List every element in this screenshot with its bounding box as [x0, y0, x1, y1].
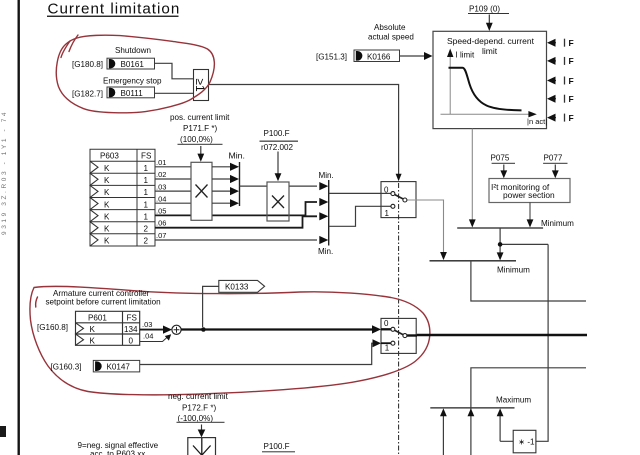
svg-text:F: F	[569, 76, 574, 86]
svg-text:≥1: ≥1	[193, 78, 207, 92]
wire K0147 to switch S2 input 1	[140, 343, 375, 364]
svg-text:[G160.8]: [G160.8]	[37, 323, 68, 332]
svg-text:P075: P075	[491, 153, 510, 162]
svg-text:Min.: Min.	[318, 247, 333, 256]
wire M1 outputs to Min bar 1	[212, 167, 231, 203]
switch S2	[381, 318, 417, 353]
svg-text:Minimum: Minimum	[497, 266, 530, 275]
svg-text:Min.: Min.	[229, 151, 245, 161]
svg-text:[G151.3]: [G151.3]	[316, 53, 347, 62]
page border bar	[18, 0, 20, 455]
wire P172 to limiter	[201, 425, 203, 431]
wire .01	[155, 166, 191, 168]
wire K0133 to main line	[203, 286, 219, 327]
node Min bar 2	[328, 180, 330, 246]
node output labels .01-.07	[156, 158, 166, 240]
svg-text:9319 3Z.R03 - 1Y1 - 74: 9319 3Z.R03 - 1Y1 - 74	[1, 110, 8, 235]
svg-text:acc. to P603 xx: acc. to P603 xx	[90, 450, 145, 455]
svg-text:.03: .03	[142, 320, 152, 329]
svg-text:.07: .07	[156, 231, 166, 240]
svg-text:B0111: B0111	[121, 89, 144, 98]
wire .03 to adder	[140, 329, 164, 331]
wire Min1 to multiplier M2	[240, 185, 318, 187]
svg-text:1: 1	[144, 200, 149, 209]
svg-text:P077: P077	[544, 153, 563, 162]
wire B0161 to OR gate	[155, 63, 194, 79]
svg-text:K: K	[90, 325, 96, 334]
wire P077 to I2t block	[554, 165, 556, 173]
svg-text:[G180.8]: [G180.8]	[72, 60, 103, 69]
svg-text:B0161: B0161	[121, 60, 145, 69]
svg-text:1: 1	[144, 164, 149, 173]
svg-text:1: 1	[385, 344, 390, 353]
block I2t monitoring	[489, 179, 570, 203]
svg-text:pos. current limit: pos. current limit	[170, 113, 230, 122]
svg-text:K0147: K0147	[107, 363, 131, 372]
wire Min2 to switch S1 input 1	[329, 206, 381, 226]
wire P171 to multiplier M1	[200, 146, 202, 155]
svg-text:P603: P603	[100, 152, 119, 161]
svg-text:F: F	[569, 113, 574, 123]
red annotation loop top	[56, 35, 214, 113]
x axis	[441, 113, 530, 115]
node (-100,0%) label	[177, 414, 225, 423]
parameter inputs on right of speed block	[547, 38, 574, 123]
node P075 label	[491, 153, 516, 164]
wire right edge down through Maximum bar	[471, 368, 586, 455]
svg-text:Current limitation: Current limitation	[48, 1, 181, 18]
op multiplier M1	[191, 162, 212, 220]
wire B0111 to OR gate	[155, 92, 194, 94]
node P109 label	[468, 4, 509, 14]
node Minimum bar B	[430, 260, 517, 262]
connector K0133 banner	[219, 280, 265, 292]
curve	[449, 68, 522, 111]
svg-text:∗ -1: ∗ -1	[518, 438, 535, 447]
svg-text:0: 0	[129, 337, 134, 346]
wire .06	[155, 216, 317, 227]
node Maximum bar	[430, 407, 514, 409]
svg-text:I limit: I limit	[456, 51, 475, 60]
node (100,0%) label	[178, 135, 223, 145]
op limiter block	[188, 438, 216, 455]
svg-text:Shutdown: Shutdown	[115, 46, 151, 55]
svg-text:K: K	[90, 337, 96, 346]
svg-text:.03: .03	[156, 182, 166, 191]
connector B0111	[107, 87, 155, 98]
svg-text:1: 1	[144, 212, 149, 221]
svg-text:P171.F *): P171.F *)	[183, 124, 217, 133]
wire S2 output thick to right edge	[417, 334, 587, 336]
page edge mark bottom-left	[0, 426, 6, 437]
svg-text:(100,0%): (100,0%)	[180, 135, 213, 144]
svg-text:1: 1	[385, 209, 390, 218]
svg-text:.06: .06	[156, 219, 166, 228]
title Current limitation	[47, 1, 180, 18]
svg-text:.05: .05	[156, 207, 166, 216]
wire Min2 to switch S1 input 0	[329, 192, 381, 194]
node P077 label	[543, 153, 567, 164]
svg-text:Maximum: Maximum	[496, 395, 531, 404]
svg-text:setpoint before current limita: setpoint before current limitation	[46, 298, 161, 307]
svg-text:F: F	[569, 38, 574, 48]
wire K0166 to speed block	[400, 55, 426, 57]
svg-text:134: 134	[124, 325, 138, 334]
wire S1 output to Minimum bar B	[416, 200, 444, 254]
svg-text:K: K	[104, 225, 110, 234]
svg-text:FS: FS	[141, 152, 152, 161]
svg-text:1: 1	[144, 176, 149, 185]
wire *-1 output up into Maximum bar	[500, 414, 513, 441]
op adder	[172, 325, 181, 334]
wire .03	[155, 190, 191, 192]
node Min bar 1	[239, 162, 241, 206]
wire .04	[155, 202, 191, 204]
svg-text:[G182.7]: [G182.7]	[72, 90, 103, 99]
op multiplier M2	[267, 182, 289, 221]
svg-text:Minimum: Minimum	[541, 219, 574, 228]
svg-text:Absolute: Absolute	[374, 23, 406, 32]
svg-text:P109 (0): P109 (0)	[469, 4, 500, 13]
svg-text:.04: .04	[156, 194, 166, 203]
svg-text:.01: .01	[156, 158, 166, 167]
wire junction down right side to *-1	[536, 244, 548, 441]
wire Minimum B output to right edge	[471, 261, 586, 301]
svg-text:Speed-depend. current: Speed-depend. current	[447, 36, 535, 46]
svg-text:K0133: K0133	[225, 283, 249, 292]
wire up into Maximum bar left	[442, 414, 444, 455]
svg-text:(-100,0%): (-100,0%)	[178, 414, 214, 423]
svg-text:.02: .02	[156, 170, 166, 179]
svg-text:P172.F *): P172.F *)	[182, 403, 216, 412]
table P603	[90, 149, 155, 246]
svg-text:K: K	[104, 237, 110, 246]
svg-text:actual speed: actual speed	[368, 33, 414, 42]
svg-text:neg. current limit: neg. current limit	[168, 392, 229, 401]
table P601	[76, 311, 140, 345]
svg-text:FS: FS	[127, 314, 138, 323]
svg-text:limit: limit	[482, 46, 498, 56]
svg-text:power section: power section	[503, 190, 555, 200]
svg-text:K0166: K0166	[367, 52, 391, 61]
wire I2t block to Minimum bar A	[529, 203, 531, 222]
svg-text:.04: .04	[143, 331, 153, 340]
wire Minimum A output with junction	[500, 228, 548, 254]
svg-text:|n act|: |n act|	[527, 117, 547, 126]
wire .07	[155, 239, 317, 241]
node dash-dot fold line	[398, 183, 400, 455]
wire P075 to I2t block	[503, 165, 505, 173]
svg-text:2: 2	[144, 225, 149, 234]
wire P109 to speed block	[488, 15, 490, 25]
node P100.F / r072.002 fraction	[260, 129, 299, 152]
wire fraction to M2	[277, 152, 279, 175]
node Minimum bar A	[457, 227, 543, 229]
svg-text:K: K	[104, 212, 110, 221]
page margin rotated text	[1, 110, 8, 235]
block speed-dependent current limit	[433, 31, 547, 128]
svg-text:P601: P601	[88, 314, 107, 323]
node P100.F bottom label	[262, 442, 296, 455]
svg-text:P100.F: P100.F	[264, 129, 290, 138]
svg-text:F: F	[569, 94, 574, 104]
op OR gate >=1	[193, 70, 209, 101]
wire adder to switch S2 (thick main line)	[181, 328, 375, 330]
wire .04 to adder	[140, 337, 168, 342]
wire .05	[155, 202, 317, 215]
wire OR gate output to switch S1 control	[209, 85, 399, 177]
switch S1	[381, 182, 416, 218]
svg-text:r072.002: r072.002	[261, 143, 293, 152]
svg-text:K: K	[104, 188, 110, 197]
wire .02	[155, 178, 191, 180]
svg-text:0: 0	[384, 319, 389, 328]
wire speed block output down to Minimum bar A	[471, 129, 473, 221]
connector K0166	[354, 50, 400, 62]
svg-text:1: 1	[144, 188, 149, 197]
op multiplier *-1	[513, 430, 536, 453]
red annotation loop bottom	[30, 286, 430, 394]
svg-text:K: K	[104, 164, 110, 173]
svg-text:K: K	[104, 176, 110, 185]
svg-text:K: K	[104, 200, 110, 209]
svg-text:[G160.3]: [G160.3]	[51, 363, 82, 372]
connector K0147	[93, 360, 139, 372]
connector B0161	[107, 58, 155, 69]
svg-text:P100.F: P100.F	[264, 442, 290, 451]
svg-text:F: F	[569, 56, 574, 66]
svg-text:Emergency stop: Emergency stop	[103, 77, 162, 86]
svg-text:Min.: Min.	[319, 171, 334, 180]
y axis	[449, 55, 451, 114]
svg-text:2: 2	[144, 237, 149, 246]
